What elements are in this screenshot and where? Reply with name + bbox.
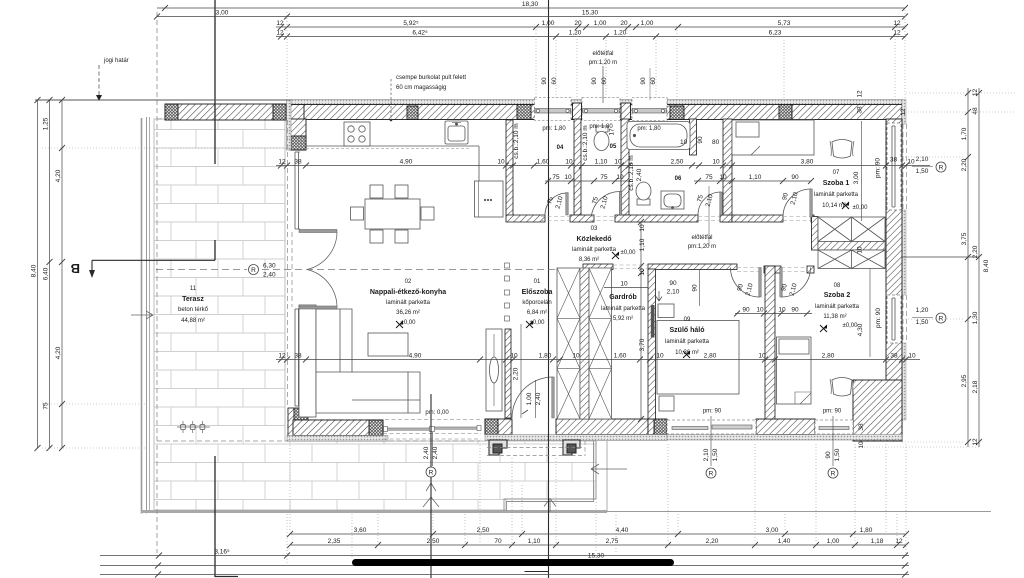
- wall 05/06: [621, 119, 629, 215]
- svg-text:03: 03: [591, 226, 598, 232]
- south wall: living room: [287, 408, 481, 441]
- svg-text:75: 75: [705, 174, 713, 181]
- svg-text:3,70: 3,70: [639, 338, 646, 351]
- svg-text:laminált parketta: laminált parketta: [815, 304, 860, 310]
- svg-text:±0,00: ±0,00: [621, 250, 637, 256]
- svg-text:±0,00: ±0,00: [843, 323, 859, 329]
- svg-text:2,50: 2,50: [427, 538, 440, 545]
- elotetfal label middle: [688, 235, 716, 250]
- svg-text:10: 10: [565, 158, 573, 165]
- svg-text:10: 10: [572, 352, 580, 359]
- elevation marker crosses: [396, 202, 849, 358]
- terrace double door: [307, 233, 337, 307]
- svg-text:2,20: 2,20: [706, 538, 719, 545]
- gardrob wardrobe X boxes: [557, 268, 612, 419]
- csempe burkolat label: [390, 75, 467, 121]
- R circle szulo south window: [703, 416, 719, 478]
- gardrob mini dims: [604, 287, 648, 289]
- svg-text:4,20: 4,20: [55, 346, 62, 359]
- svg-text:Szoba 2: Szoba 2: [824, 292, 851, 299]
- svg-text:laminált parketta: laminált parketta: [386, 300, 431, 306]
- szulo halo bed: [657, 304, 739, 411]
- svg-text:1,80: 1,80: [860, 527, 873, 534]
- svg-text:38: 38: [294, 158, 302, 165]
- svg-text:3,60: 3,60: [354, 527, 367, 534]
- szulo / szoba2 wall: [765, 266, 775, 419]
- svg-text:2,20: 2,20: [961, 158, 968, 171]
- svg-text:2,40: 2,40: [636, 168, 643, 181]
- svg-text:10: 10: [620, 281, 628, 288]
- svg-text:12: 12: [278, 352, 286, 359]
- svg-text:1,25: 1,25: [43, 117, 50, 130]
- svg-text:2,80: 2,80: [822, 352, 835, 359]
- svg-text:±0,00: ±0,00: [853, 205, 869, 211]
- svg-text:10: 10: [614, 158, 622, 165]
- svg-text:60: 60: [601, 77, 608, 85]
- svg-text:20: 20: [574, 20, 582, 27]
- svg-text:8,40: 8,40: [983, 259, 990, 272]
- svg-text:3,75: 3,75: [961, 232, 968, 245]
- svg-text:4,30: 4,30: [857, 323, 864, 336]
- svg-text:12: 12: [276, 29, 284, 36]
- bath 06 tub: [627, 122, 690, 150]
- wc 05 toilet: [594, 126, 609, 151]
- svg-text:1,50: 1,50: [916, 319, 929, 326]
- svg-text:44,88 m²: 44,88 m²: [181, 318, 205, 324]
- svg-text:Gardrób: Gardrób: [609, 294, 637, 301]
- terrace dashed edge: [157, 12, 480, 553]
- svg-text:Szülő háló: Szülő háló: [670, 327, 705, 334]
- svg-text:2,50: 2,50: [671, 158, 684, 165]
- terrace lamp circles: [177, 421, 210, 433]
- door szulo halo: [731, 268, 761, 298]
- svg-text:01: 01: [534, 279, 541, 285]
- svg-text:90: 90: [640, 77, 647, 85]
- svg-text:1,10: 1,10: [639, 238, 646, 251]
- svg-text:pm: 0,00: pm: 0,00: [425, 410, 449, 416]
- top dim row 18,30: [157, 7, 905, 9]
- svg-text:2,40: 2,40: [535, 392, 542, 405]
- boundary line top: [35, 99, 290, 101]
- svg-text:09: 09: [684, 317, 691, 323]
- svg-text:05: 05: [610, 144, 617, 150]
- svg-text:R: R: [709, 471, 714, 478]
- svg-text:R: R: [429, 470, 434, 477]
- door 05: [592, 191, 621, 215]
- bottom dim row C: [100, 555, 909, 557]
- bath 06 sink: [661, 191, 684, 209]
- svg-text:90: 90: [669, 280, 677, 287]
- svg-text:pm:1,20 m: pm:1,20 m: [688, 244, 716, 250]
- svg-text:csempe burkolat pult felett: csempe burkolat pult felett: [396, 75, 466, 81]
- svg-text:laminált parketta: laminált parketta: [601, 306, 646, 312]
- door szoba1: [783, 189, 811, 217]
- svg-text:1,60: 1,60: [614, 352, 627, 359]
- svg-text:90: 90: [591, 77, 598, 85]
- szoba1 wardrobe X boxes: [818, 217, 885, 269]
- svg-text:laminált parketta: laminált parketta: [572, 247, 617, 253]
- coffee table: [368, 333, 408, 356]
- svg-text:R: R: [251, 267, 256, 274]
- svg-text:12: 12: [893, 29, 901, 36]
- szoba2 chair: [830, 378, 854, 397]
- svg-text:90: 90: [541, 77, 548, 85]
- east wall window szoba1: [887, 123, 901, 210]
- terrace slope arrows: [131, 311, 627, 512]
- svg-text:10: 10: [639, 224, 646, 232]
- svg-text:cs.b.:2,10 m: cs.b.:2,10 m: [582, 125, 589, 160]
- svg-text:18,30: 18,30: [522, 1, 539, 8]
- svg-text:10: 10: [616, 174, 624, 181]
- entrance canopy dashed: [487, 441, 585, 456]
- svg-text:3,00: 3,00: [216, 9, 229, 16]
- svg-text:6,30: 6,30: [263, 263, 276, 270]
- svg-text:48: 48: [972, 107, 979, 115]
- svg-text:1,50: 1,50: [834, 448, 841, 461]
- svg-text:pm: 90: pm: 90: [875, 308, 882, 328]
- svg-text:10: 10: [756, 306, 764, 313]
- svg-text:pm:1,20 m: pm:1,20 m: [589, 60, 617, 66]
- south wall: entrance porch wall: [485, 419, 667, 435]
- R circle szoba2 east window: [912, 307, 946, 326]
- scale bar: [352, 559, 674, 566]
- svg-text:pm: 90: pm: 90: [703, 409, 722, 415]
- svg-text:90: 90: [692, 284, 699, 292]
- porch columns: [489, 440, 580, 455]
- terrace paving (beton terko): [154, 119, 596, 510]
- svg-text:08: 08: [834, 283, 841, 289]
- svg-text:1,20: 1,20: [916, 307, 929, 314]
- svg-text:1,20: 1,20: [569, 29, 582, 36]
- top wall free-standing band (garden wall): [165, 104, 286, 120]
- svg-text:12: 12: [895, 538, 903, 545]
- svg-text:R: R: [939, 165, 944, 172]
- svg-text:cs.b.:2,10 m: cs.b.:2,10 m: [513, 123, 520, 158]
- left dim col outer: [37, 100, 39, 448]
- svg-text:pm: 1,80: pm: 1,80: [589, 124, 613, 130]
- svg-text:12: 12: [278, 158, 286, 165]
- svg-text:1,10: 1,10: [749, 174, 762, 181]
- svg-text:10: 10: [778, 306, 786, 313]
- svg-text:10: 10: [908, 352, 916, 359]
- szoba1 bed: [732, 120, 814, 155]
- svg-text:1,00: 1,00: [542, 20, 555, 27]
- svg-text:10: 10: [680, 139, 688, 146]
- svg-text:1,00: 1,00: [641, 20, 654, 27]
- svg-text:1,10: 1,10: [595, 158, 608, 165]
- svg-text:38: 38: [890, 352, 898, 359]
- svg-text:60: 60: [551, 77, 558, 85]
- bottom dim row A: [290, 533, 906, 535]
- svg-text:8,36 m²: 8,36 m²: [579, 257, 599, 263]
- north wall window openings (04,05,06 high windows): [535, 98, 668, 121]
- svg-text:2,40: 2,40: [263, 272, 276, 279]
- svg-text:Terasz: Terasz: [182, 296, 204, 303]
- svg-text:3,00: 3,00: [766, 527, 779, 534]
- svg-text:pm: 1,80: pm: 1,80: [637, 126, 661, 132]
- svg-text:36,26 m²: 36,26 m²: [396, 310, 420, 316]
- svg-text:5,92 m²: 5,92 m²: [613, 316, 633, 322]
- svg-text:60: 60: [650, 77, 657, 85]
- svg-text:pm: 90: pm: 90: [823, 409, 842, 415]
- svg-text:38: 38: [858, 423, 865, 431]
- svg-text:3,16⁵: 3,16⁵: [214, 548, 230, 555]
- svg-text:02: 02: [405, 279, 412, 285]
- svg-text:laminált parketta: laminált parketta: [665, 339, 710, 345]
- svg-text:10: 10: [758, 352, 766, 359]
- svg-text:±0,00: ±0,00: [401, 320, 417, 326]
- svg-text:90: 90: [697, 136, 704, 144]
- building top (north) wall: [290, 100, 902, 120]
- svg-text:1,80: 1,80: [539, 352, 552, 359]
- wall 06/szoba1: [723, 119, 732, 222]
- svg-text:2,20: 2,20: [513, 367, 520, 380]
- svg-text:10: 10: [907, 158, 915, 165]
- svg-text:15,30: 15,30: [582, 9, 599, 16]
- svg-text:8,40: 8,40: [31, 264, 38, 277]
- svg-text:2,95: 2,95: [961, 374, 968, 387]
- svg-text:10: 10: [719, 174, 727, 181]
- bath stub wall: [690, 119, 697, 155]
- svg-text:2,18: 2,18: [972, 380, 979, 393]
- svg-text:90: 90: [825, 451, 832, 459]
- svg-text:R: R: [831, 471, 836, 478]
- fridge / pantry unit: [475, 181, 504, 217]
- svg-text:4,90: 4,90: [400, 158, 413, 165]
- svg-text:6,23: 6,23: [769, 29, 782, 36]
- right dim col inner: [967, 88, 969, 447]
- stove: [344, 122, 370, 146]
- svg-text:2,20: 2,20: [972, 245, 979, 258]
- svg-text:70: 70: [494, 538, 502, 545]
- left dim col inner: [61, 100, 63, 448]
- top dim row 15,30 / 3,00: [157, 16, 905, 18]
- svg-text:75: 75: [43, 402, 50, 410]
- svg-text:10: 10: [712, 158, 720, 165]
- svg-text:pm: 90: pm: 90: [875, 158, 882, 178]
- vertical dim chain x641: [638, 219, 646, 422]
- corridor bottom wall segments: [583, 264, 613, 270]
- svg-text:12: 12: [972, 89, 979, 97]
- west wall windows (glazing): [295, 152, 300, 406]
- svg-text:06: 06: [675, 176, 682, 182]
- svg-text:12: 12: [893, 20, 901, 27]
- svg-text:B: B: [71, 261, 80, 276]
- svg-text:1,00: 1,00: [594, 20, 607, 27]
- wall 04/05: [574, 119, 581, 215]
- svg-text:1,50: 1,50: [712, 448, 719, 461]
- svg-text:07: 07: [833, 170, 840, 176]
- dashed wall projections across door openings: [541, 217, 811, 272]
- svg-text:10: 10: [564, 174, 572, 181]
- svg-text:10: 10: [656, 352, 664, 359]
- south windows bedroom wing: [667, 420, 902, 440]
- svg-text:1,40: 1,40: [778, 538, 791, 545]
- east wall outer face strips: [902, 100, 907, 421]
- tv cabinet: [486, 329, 502, 411]
- svg-text:11,38 m²: 11,38 m²: [823, 314, 846, 320]
- svg-text:±0,00: ±0,00: [530, 320, 546, 326]
- top dim row 5,92 etc: [276, 26, 905, 28]
- svg-text:1,50: 1,50: [916, 168, 929, 175]
- svg-text:75: 75: [552, 174, 560, 181]
- svg-text:3,00: 3,00: [853, 171, 860, 184]
- right dim col outer: [978, 88, 980, 447]
- kitchen counter: [306, 146, 479, 181]
- interior dim line y312: [735, 313, 812, 315]
- vertical small texts: [513, 90, 908, 449]
- svg-text:38: 38: [890, 157, 898, 164]
- svg-text:jogi határ: jogi határ: [103, 58, 129, 64]
- interior dim line y179 right: [694, 180, 811, 182]
- east wall: [886, 119, 902, 441]
- entrance door: [512, 377, 553, 418]
- svg-text:Előszoba: Előszoba: [522, 289, 553, 296]
- svg-text:5,92⁵: 5,92⁵: [403, 20, 419, 27]
- svg-text:Közlekedő: Közlekedő: [576, 236, 611, 243]
- szoba1 chair: [830, 140, 854, 159]
- svg-text:90: 90: [791, 174, 799, 181]
- svg-text:előtétfal: előtétfal: [592, 51, 613, 57]
- entrance door labels: [522, 380, 542, 418]
- kitchen sink: [445, 121, 468, 144]
- svg-text:2,40: 2,40: [432, 446, 439, 459]
- sliding door dashes (eloszoba): [505, 263, 510, 321]
- svg-text:20: 20: [620, 20, 628, 27]
- svg-text:60 cm magasságig: 60 cm magasságig: [396, 85, 446, 91]
- svg-text:2,10: 2,10: [667, 289, 680, 296]
- svg-text:1,00: 1,00: [526, 392, 533, 405]
- dotted extension lines vertical (bottom): [287, 444, 906, 564]
- svg-text:12: 12: [857, 90, 864, 98]
- svg-text:1,60: 1,60: [537, 158, 550, 165]
- svg-text:10,14 m²: 10,14 m²: [822, 203, 846, 209]
- svg-text:6,42⁵: 6,42⁵: [412, 29, 428, 36]
- svg-text:15,30: 15,30: [588, 553, 605, 560]
- svg-text:11: 11: [190, 286, 197, 292]
- east wall window szoba2: [887, 295, 901, 343]
- terrace room label: [178, 286, 209, 324]
- wardrobe side hatch strip: [812, 217, 819, 251]
- R circle terrace door: [156, 263, 556, 279]
- szulo wall duct bar: [651, 305, 655, 338]
- south wall sill band at entrance: [485, 435, 667, 441]
- svg-text:10,36 m²: 10,36 m²: [675, 350, 699, 356]
- svg-text:6,40: 6,40: [43, 267, 50, 280]
- svg-text:12: 12: [276, 20, 284, 27]
- svg-text:12: 12: [972, 438, 979, 446]
- bottom dim row B: [290, 544, 906, 546]
- door rotated labels: [546, 191, 799, 296]
- svg-text:90: 90: [742, 306, 750, 313]
- door szoba2: [781, 268, 811, 298]
- svg-text:10: 10: [858, 441, 865, 449]
- top dim row 6,42 etc: [276, 36, 905, 38]
- svg-text:2,75: 2,75: [606, 538, 619, 545]
- svg-text:2,35: 2,35: [328, 538, 341, 545]
- gardrob / szulo wall: [648, 269, 656, 419]
- svg-text:2,40: 2,40: [423, 446, 430, 459]
- svg-text:Szoba 1: Szoba 1: [823, 180, 850, 187]
- dotted extension lines vertical (top): [287, 10, 905, 100]
- svg-text:1,20: 1,20: [614, 29, 627, 36]
- svg-text:cs.b.:2,10 m: cs.b.:2,10 m: [628, 155, 635, 190]
- sofa L: [299, 305, 420, 417]
- svg-text:38: 38: [857, 106, 864, 114]
- svg-text:1,18: 1,18: [871, 538, 884, 545]
- R circle szoba2 south window: [825, 416, 841, 478]
- eloszoba west stub: [505, 329, 511, 418]
- svg-text:10: 10: [510, 352, 518, 359]
- svg-text:10: 10: [497, 158, 505, 165]
- svg-text:2,80: 2,80: [704, 352, 717, 359]
- jogi hatar: [96, 58, 129, 101]
- svg-text:90: 90: [791, 306, 799, 313]
- bath 06 toilet: [636, 182, 651, 205]
- svg-text:10: 10: [857, 246, 864, 254]
- svg-text:6,84 m²: 6,84 m²: [527, 310, 547, 316]
- SE corner block: [853, 380, 902, 441]
- svg-text:4,90: 4,90: [409, 352, 422, 359]
- svg-text:előtétfal: előtétfal: [691, 235, 712, 241]
- dotted extension lines horizontal (left+right): [42, 93, 1015, 448]
- svg-text:10: 10: [639, 268, 646, 276]
- svg-text:beton térkő: beton térkő: [178, 307, 209, 313]
- dining table: [351, 185, 435, 243]
- svg-text:1,30: 1,30: [972, 311, 979, 324]
- R circle szoba1 east window: [912, 156, 946, 175]
- left dim col mid: [49, 100, 51, 448]
- bottom dim row D: [100, 565, 909, 567]
- svg-text:38: 38: [294, 352, 302, 359]
- svg-text:laminált parketta: laminált parketta: [814, 192, 859, 198]
- door 06: [698, 192, 721, 215]
- terrace outer boundary lines: [141, 117, 991, 514]
- svg-text:4,20: 4,20: [55, 169, 62, 182]
- corridor top wall segments: [570, 215, 594, 222]
- svg-text:3,80: 3,80: [801, 158, 814, 165]
- wall kitchen / room04: [506, 120, 545, 222]
- south wall bedroom wing walls: [756, 419, 902, 441]
- west wall: [287, 100, 307, 150]
- svg-text:kőporcelán: kőporcelán: [522, 300, 551, 306]
- svg-text:80: 80: [712, 139, 720, 146]
- svg-text:5,73: 5,73: [778, 20, 791, 27]
- svg-text:4,40: 4,40: [616, 527, 629, 534]
- svg-text:1,00: 1,00: [827, 538, 840, 545]
- svg-text:Nappali-étkező-konyha: Nappali-étkező-konyha: [370, 289, 446, 296]
- svg-text:2,50: 2,50: [477, 527, 490, 534]
- svg-text:75: 75: [600, 174, 608, 181]
- interior dim line y179 left: [545, 180, 629, 182]
- kitchen counter dashed: [306, 148, 470, 150]
- interior dim line kitchen row y164: [276, 165, 930, 167]
- svg-text:pm: 1,80: pm: 1,80: [542, 126, 566, 132]
- szoba2 bed: [777, 337, 812, 404]
- svg-text:04: 04: [557, 145, 564, 151]
- svg-text:1,70: 1,70: [961, 127, 968, 140]
- svg-text:2,10: 2,10: [703, 448, 710, 461]
- door 04: [545, 193, 567, 215]
- svg-text:1,10: 1,10: [528, 538, 541, 545]
- elotetfal label top: [589, 51, 650, 103]
- R circle living south window: [423, 432, 439, 477]
- interior dim line y358: [276, 359, 920, 361]
